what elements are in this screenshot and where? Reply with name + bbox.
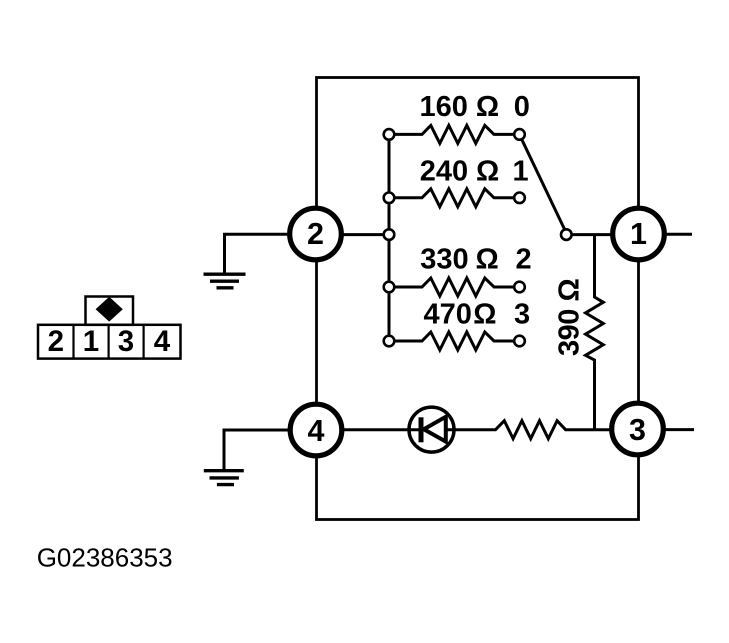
ground G2 xyxy=(204,471,244,485)
terminal circle 160 left xyxy=(384,129,395,140)
resistor 390ohm vertical xyxy=(586,235,604,430)
terminal circle 160 right xyxy=(514,129,525,140)
bottom wire node4 to node3 with resistor xyxy=(316,421,638,439)
svg-text:4: 4 xyxy=(308,414,325,448)
node 2 circle xyxy=(290,208,342,260)
connector cell divider 2 xyxy=(107,325,109,359)
connector cell divider 3 xyxy=(143,325,145,359)
switch pivot terminal circle xyxy=(561,229,572,240)
wire node2 to bus xyxy=(316,233,390,236)
terminal circle bus tap xyxy=(384,229,395,240)
resistor 330ohm xyxy=(395,278,515,296)
svg-text:2: 2 xyxy=(48,325,64,358)
svg-text:3: 3 xyxy=(118,325,134,358)
svg-text:2: 2 xyxy=(516,243,532,275)
svg-text:G02386353: G02386353 xyxy=(37,543,173,573)
diode triangle xyxy=(424,417,446,442)
terminal circle 470 left xyxy=(384,336,395,347)
terminal circle 330 right xyxy=(514,282,525,293)
svg-text:330: 330 xyxy=(420,243,468,275)
node 1 circle xyxy=(613,208,665,260)
resistor 160ohm xyxy=(395,125,515,143)
wire stub right of node 3 xyxy=(638,428,695,431)
wire node2 to ground xyxy=(225,234,316,272)
node 3 circle xyxy=(612,403,664,455)
svg-text:Ω: Ω xyxy=(476,156,499,188)
terminal circle 240 left xyxy=(384,193,395,204)
resistor 240ohm xyxy=(395,189,515,207)
connector top keyway box xyxy=(86,297,134,325)
svg-text:240: 240 xyxy=(420,156,468,188)
connector housing xyxy=(38,325,181,359)
svg-text:4: 4 xyxy=(154,325,171,358)
svg-text:Ω: Ω xyxy=(476,243,499,275)
resistor 470ohm xyxy=(395,332,515,350)
svg-text:3: 3 xyxy=(629,413,646,447)
svg-text:2: 2 xyxy=(307,217,324,251)
terminal circle 470 right xyxy=(514,336,525,347)
svg-text:390 Ω: 390 Ω xyxy=(554,279,586,356)
svg-text:Ω: Ω xyxy=(473,299,496,331)
svg-text:3: 3 xyxy=(514,299,530,331)
switch arm wire xyxy=(521,138,566,233)
component outline box xyxy=(317,78,639,520)
bus vertical wire xyxy=(388,134,391,341)
terminal circle 330 left xyxy=(384,282,395,293)
diode cathode bar xyxy=(419,417,424,442)
svg-text:1: 1 xyxy=(83,325,99,358)
svg-text:Ω: Ω xyxy=(476,91,499,123)
terminal circle 240 right xyxy=(514,193,525,204)
svg-text:470: 470 xyxy=(424,299,472,331)
wire stub right of node 1 xyxy=(639,233,693,236)
svg-text:160: 160 xyxy=(420,91,468,123)
connector keyway diamond xyxy=(96,297,123,322)
node 4 circle xyxy=(290,404,342,456)
wire node4 to ground xyxy=(224,430,316,469)
svg-text:1: 1 xyxy=(513,156,529,188)
ground G1 xyxy=(204,274,246,288)
svg-text:0: 0 xyxy=(514,91,530,123)
connector cell divider 1 xyxy=(72,325,74,359)
diode circle xyxy=(409,407,454,452)
wire pivot to node 1 xyxy=(566,233,625,236)
svg-text:1: 1 xyxy=(630,217,647,251)
